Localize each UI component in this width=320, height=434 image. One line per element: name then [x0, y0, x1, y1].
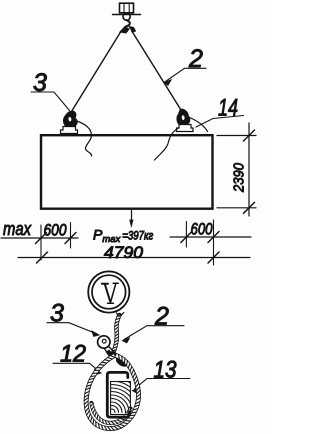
sling mark V [102, 283, 118, 303]
svg-text:4790: 4790 [104, 244, 144, 262]
leader for label 13 [135, 379, 191, 390]
timber clamp C-bracket [107, 372, 129, 417]
sling 2 right branch [132, 31, 182, 111]
svg-text:13: 13 [154, 357, 178, 384]
crane hook body [125, 20, 130, 31]
tick left edge [36, 233, 47, 244]
sling mark circle inner [92, 275, 126, 309]
svg-text:600: 600 [191, 221, 214, 239]
extension line at slab right edge [213, 220, 215, 265]
timber log outline [111, 382, 131, 415]
tick left sling [65, 233, 76, 244]
right clamp hook blob [177, 109, 190, 125]
leader for label 3 [31, 92, 70, 111]
shackle strap to loop [104, 347, 117, 359]
right clamp base plate [177, 125, 194, 132]
hook cross bar [113, 14, 141, 16]
extension line at left sling point [70, 223, 72, 249]
detail rope 2 rising [112, 313, 124, 353]
right clamp outer tail wire [190, 118, 208, 132]
right clamp inner wavy wire [155, 128, 179, 160]
tick right edge (upper) [208, 232, 219, 243]
svg-text:600: 600 [44, 222, 68, 240]
svg-text:3: 3 [33, 69, 47, 97]
leader for detail label 3 [47, 323, 97, 334]
left clamp base plate [61, 127, 78, 134]
rope loop thimble (dark curl at top) [116, 355, 126, 366]
left clamp hook blob [63, 111, 77, 127]
leader for label 2 [164, 68, 206, 82]
slab rectangle [41, 135, 213, 209]
dimension line lower-left (max+600) [1, 237, 78, 239]
dimension line lower-right (600) [170, 236, 251, 238]
leader for detail label 2 [124, 326, 184, 340]
svg-text:2: 2 [154, 303, 169, 331]
tick 2390 bottom [244, 202, 255, 213]
sling mark circle outer [88, 271, 129, 312]
leader for label 12 [53, 363, 99, 371]
dimension line 4790 [18, 257, 250, 259]
crane hook clevis [120, 3, 134, 13]
extension line at slab left edge [40, 225, 42, 260]
centre load arrow [131, 210, 133, 221]
tick 4790 right [208, 252, 219, 263]
hook eye circle [123, 13, 130, 20]
sling eyes on hook [120, 27, 129, 34]
detail shackle eye [98, 336, 110, 348]
tick 2390 top [244, 130, 255, 141]
extension line at right sling point [185, 222, 187, 248]
choker rope loop (teardrop) [84, 354, 140, 430]
svg-text:2390: 2390 [231, 162, 248, 192]
tick 4790 left [37, 252, 48, 263]
leader for label 14 [196, 116, 244, 128]
2390 vertical dimension line [248, 123, 250, 216]
svg-text:3: 3 [50, 300, 64, 328]
svg-text:Pmax=397кг: Pmax=397кг [93, 227, 154, 246]
left clamp tail wire [77, 121, 92, 156]
2390 top extension line [217, 135, 256, 137]
tick right sling [181, 232, 192, 243]
svg-text:max: max [3, 219, 32, 239]
sling 2 left branch [72, 31, 122, 112]
2390 bottom extension line [217, 207, 256, 209]
inner rope strand at bottom [90, 403, 131, 425]
